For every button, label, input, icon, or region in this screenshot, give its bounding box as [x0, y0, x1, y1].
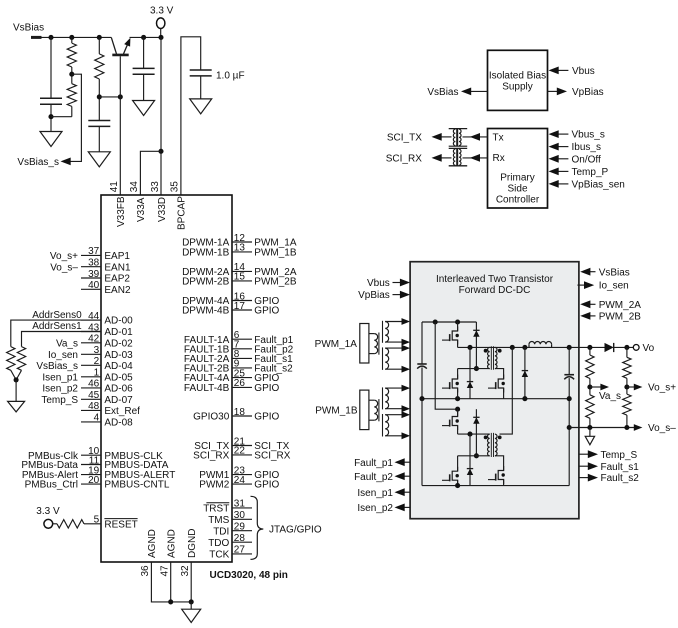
wire va_s arrow line: [590, 386, 601, 388]
T1 dot primary: [484, 349, 488, 353]
svg-text:GPIO: GPIO: [254, 383, 279, 394]
svg-text:AddrSens0: AddrSens0: [32, 310, 82, 321]
wire Q1 base to pin41: [119, 56, 121, 195]
node clamp1 foot: [474, 366, 479, 371]
wire input cap bottom: [421, 367, 423, 398]
node outgnd-a: [567, 396, 572, 401]
transformer T1 winding s: [495, 347, 497, 368]
svg-text:Vo_s–: Vo_s–: [648, 423, 676, 434]
svg-text:Isen_p1: Isen_p1: [42, 372, 78, 383]
transistor Q4 sync rect ph1: [498, 375, 503, 393]
power terminal 3.3V circle: [157, 18, 165, 29]
svg-text:Temp_S: Temp_S: [601, 450, 638, 461]
pin 7 stub: [232, 348, 252, 350]
resistor R9: [623, 357, 631, 378]
block Primary Side Controller: [488, 129, 548, 209]
ground below C1: [40, 132, 62, 147]
svg-text:30: 30: [234, 510, 246, 521]
secondary winding A PWM_1B: [385, 388, 388, 409]
node freewheel foot: [522, 396, 527, 401]
arrow VsBias dcdc: [580, 268, 590, 276]
primary core PWM_1A: [378, 333, 380, 355]
wire rail to R1: [71, 37, 73, 43]
node gnd2-a: [455, 483, 460, 488]
arrow Fault_s1 dcdc: [588, 462, 598, 470]
pin 39 stub: [81, 277, 101, 279]
wire r8 bottom: [589, 418, 591, 427]
svg-text:Io_sen: Io_sen: [48, 350, 78, 361]
transformer T3 winding b: [459, 129, 461, 145]
svg-text:Rx: Rx: [493, 153, 505, 164]
block Isolated Bias Supply: [488, 50, 548, 110]
svg-text:42: 42: [88, 334, 100, 345]
lead B1 PWM_1B: [385, 414, 401, 416]
svg-text:47: 47: [159, 565, 170, 577]
wire left column to ph2 gnd: [421, 399, 423, 486]
wire AddrSens0: [11, 320, 101, 347]
svg-text:1.0 µF: 1.0 µF: [216, 70, 245, 81]
transformer T4 bottom plate: [449, 165, 468, 167]
svg-text:20: 20: [88, 475, 100, 486]
ground digital: [182, 609, 201, 622]
wire diode to Vo: [614, 346, 634, 348]
arrow VpBias out: [557, 88, 567, 96]
wire to addr ground: [15, 380, 17, 402]
svg-text:AGND: AGND: [147, 529, 158, 558]
arrow Vbus in: [549, 67, 559, 75]
T2 dot secondary: [498, 436, 502, 440]
wire circle to R4: [53, 523, 57, 525]
lead A1 PWM_1A: [385, 321, 401, 323]
wire to ground: [190, 602, 192, 609]
wire VpBias out: [548, 90, 559, 92]
secondary winding B PWM_1A: [385, 348, 389, 369]
wire primary bottom ph2: [458, 455, 490, 457]
secondary core B PWM_1B: [382, 414, 384, 437]
lead A2 PWM_1B: [385, 408, 401, 410]
pin 27 stub: [232, 553, 252, 555]
svg-text:PWM2: PWM2: [199, 480, 229, 491]
node gnd-b: [455, 396, 460, 401]
capacitor C1: [40, 97, 62, 99]
capacitor C4 bypass: [190, 69, 212, 71]
lead B2 PWM_1B: [385, 435, 401, 437]
wire Isen_p2: [404, 506, 411, 508]
svg-text:GPIO30: GPIO30: [193, 412, 230, 423]
resistor R6: [17, 347, 25, 371]
arrow Vo_s+: [634, 384, 643, 391]
wire Vbus in: [558, 69, 569, 71]
wire R1 to R2: [71, 67, 73, 84]
svg-text:PWM_1B: PWM_1B: [254, 248, 297, 259]
inductor L1 output: [528, 344, 530, 347]
svg-text:Isolated Bias: Isolated Bias: [489, 70, 546, 81]
svg-text:AD-04: AD-04: [104, 361, 133, 372]
arrow Fault_p2: [395, 472, 405, 480]
wire input cap top: [421, 322, 423, 364]
svg-text:VpBias: VpBias: [572, 87, 604, 98]
svg-text:Fault_s2: Fault_s2: [601, 473, 640, 484]
svg-text:VpBias: VpBias: [358, 290, 390, 301]
pin 23 stub: [232, 474, 252, 476]
transformer T2 core: [490, 433, 492, 457]
arrow B1 PWM_1B: [402, 411, 411, 418]
transistor Q3 low-side ph1: [452, 375, 457, 393]
transformer T2 winding s: [495, 434, 497, 456]
arrow A1 PWM_1A: [402, 318, 411, 325]
wire AGND pin47 down: [170, 562, 172, 602]
transformer T3 top plate: [449, 128, 468, 130]
svg-text:TRST: TRST: [203, 504, 229, 515]
pin 10 stub: [81, 454, 101, 456]
svg-text:24: 24: [234, 475, 246, 486]
svg-text:Fault_p2: Fault_p2: [354, 472, 393, 483]
resistor R4: [57, 520, 84, 528]
svg-text:SCI_RX: SCI_RX: [193, 451, 229, 462]
power terminal 3.3V reset circle: [44, 519, 53, 528]
pin 16 stub: [232, 300, 252, 302]
wire output return: [569, 427, 634, 429]
svg-text:BPCAP: BPCAP: [177, 196, 188, 230]
wire primary bottom ph1: [458, 368, 490, 370]
svg-text:PWM_2B: PWM_2B: [254, 277, 297, 288]
node out-cap-top: [567, 345, 572, 350]
wire 3.3V to pin33: [160, 37, 162, 195]
T1 dot secondary: [498, 349, 502, 353]
svg-text:TDO: TDO: [208, 538, 229, 549]
wire phase2 feed: [435, 322, 457, 409]
node rail-j5: [158, 35, 163, 40]
svg-text:V33A: V33A: [136, 197, 147, 222]
gate transformer rect PWM_1A: [360, 324, 369, 364]
primary winding PWM_1A: [374, 334, 377, 354]
wire AGND pin36 down: [151, 562, 191, 602]
wire DGND pin32 down: [190, 562, 192, 602]
diode D6 output: [605, 343, 614, 352]
svg-text:TCK: TCK: [209, 550, 229, 561]
transistor Q1 collector: [111, 37, 116, 54]
diode D3 freewheel: [522, 371, 528, 377]
secondary core B PWM_1A: [382, 347, 384, 370]
tap upper PWM_1A: [369, 333, 374, 335]
pin 3 stub: [81, 353, 101, 355]
arrow Vo_s-: [634, 424, 643, 431]
wire r10 bottom: [626, 415, 628, 427]
wire sec bottom ph1: [495, 369, 504, 379]
secondary winding B PWM_1B: [385, 415, 389, 436]
svg-text:SCI_RX: SCI_RX: [386, 154, 422, 165]
svg-text:33: 33: [150, 181, 161, 193]
wire q5 source: [457, 426, 459, 435]
svg-text:2: 2: [94, 356, 100, 367]
wire Ibus_s in: [558, 146, 569, 148]
node R3-base junction: [97, 94, 102, 99]
lead B1 PWM_1A: [385, 347, 401, 349]
wire R2 bottom: [71, 106, 73, 116]
svg-text:VsBias_s: VsBias_s: [36, 361, 78, 372]
arrow Isen_p2: [395, 504, 405, 512]
svg-text:36: 36: [140, 565, 151, 577]
node va_s tap: [587, 384, 592, 389]
wire sec bottom ph2: [495, 456, 504, 471]
node clamp1 ph2 foot: [474, 453, 479, 458]
wire r7 top lead: [589, 347, 591, 355]
ground output: [585, 436, 594, 445]
node C1-R2 junction: [48, 114, 53, 119]
svg-text:Forward DC-DC: Forward DC-DC: [459, 285, 531, 296]
svg-text:PWM_2A: PWM_2A: [599, 300, 642, 311]
capacitor C6 output: [564, 374, 574, 376]
secondary core A PWM_1B: [382, 387, 384, 409]
svg-text:UCD3020, 48 pin: UCD3020, 48 pin: [210, 570, 288, 581]
svg-text:AD-00: AD-00: [104, 316, 133, 327]
diode D1 clamp: [473, 330, 479, 336]
transistor Q5 high-side ph2: [452, 412, 457, 430]
wire C3 to ground: [143, 74, 145, 100]
arrow Temp_S dcdc: [588, 450, 598, 458]
svg-text:PMBUS-CNTL: PMBUS-CNTL: [104, 480, 169, 491]
node sec-top-b: [522, 345, 527, 350]
wire base feedback: [99, 96, 120, 98]
wire VpBias_sen in: [558, 183, 569, 185]
pin 12 stub: [232, 241, 252, 243]
wire Temp_S dcdc: [579, 453, 589, 455]
primary core PWM_1B: [378, 399, 380, 421]
svg-text:34: 34: [129, 181, 140, 193]
transistor Q2 high-side ph1: [452, 327, 457, 345]
pin 31 stub: [232, 507, 252, 509]
pin 26 stub: [232, 386, 252, 388]
wire VpBias dcdc: [393, 294, 402, 296]
svg-text:VsBias: VsBias: [427, 87, 458, 98]
node DGND junction: [189, 599, 194, 604]
wire top bus: [422, 321, 476, 323]
wire Fault_s2 dcdc: [579, 477, 589, 479]
wire C3 branch: [143, 37, 145, 68]
svg-text:AD-01: AD-01: [104, 327, 133, 338]
brace JTAG: [251, 496, 264, 559]
svg-text:EAN1: EAN1: [104, 262, 131, 273]
node rail-j4: [141, 35, 146, 40]
svg-text:GPIO: GPIO: [254, 480, 279, 491]
arrow Fault_p1: [395, 458, 405, 466]
pin 25 stub: [232, 377, 252, 379]
wire R3 to C2: [98, 79, 100, 121]
gate transformer rect PWM_1B: [360, 390, 369, 430]
svg-text:18: 18: [234, 407, 246, 418]
wire rail to R3: [98, 37, 100, 54]
svg-text:48: 48: [88, 401, 100, 412]
wire q7 source: [503, 480, 505, 486]
arrow B1 PWM_1A: [402, 345, 411, 352]
arrow A1 PWM_1B: [402, 385, 411, 392]
svg-text:27: 27: [234, 545, 246, 556]
transformer T1 winding p: [488, 347, 490, 368]
arrow SCI_RX: [432, 154, 442, 162]
svg-text:37: 37: [88, 246, 100, 257]
node V33A junction: [158, 149, 163, 154]
arrow Ibus_s: [549, 143, 559, 151]
node AGND junction: [168, 599, 173, 604]
wire Fault_p1: [404, 461, 411, 463]
VsBias input stub: [31, 36, 42, 39]
wire out cap lower: [568, 378, 570, 486]
svg-text:Vo_s–: Vo_s–: [50, 262, 78, 273]
svg-text:Tx: Tx: [493, 133, 504, 144]
pin 22 stub: [232, 454, 252, 456]
arrow PWM_2A dcdc: [580, 300, 590, 308]
wire C1 to ground: [50, 104, 52, 131]
node ph2 feed: [455, 407, 460, 412]
svg-text:3.3 V: 3.3 V: [36, 506, 60, 517]
T2 dot primary: [484, 436, 488, 440]
node r7 top: [587, 345, 592, 350]
pin 4 stub: [81, 421, 101, 423]
pin 29 stub: [232, 530, 252, 532]
pin 8 stub: [232, 357, 252, 359]
resistor R1: [67, 43, 76, 67]
svg-text:VsBias: VsBias: [13, 23, 44, 34]
arrow VsBias_s: [61, 158, 71, 166]
svg-text:AD-08: AD-08: [104, 418, 133, 429]
overline TRST: [206, 502, 229, 504]
wire SCI_TX link: [441, 136, 452, 138]
pin 24 stub: [232, 483, 252, 485]
svg-text:Side: Side: [507, 183, 527, 194]
transformer T3 core bar: [456, 129, 458, 147]
wire pin35 BPCAP riser: [181, 37, 201, 195]
svg-text:Vo_s+: Vo_s+: [648, 383, 676, 394]
node vo-div: [624, 345, 629, 350]
wire r7 mid: [589, 379, 591, 395]
wire phase1 gnd bus: [422, 398, 569, 400]
svg-text:17: 17: [234, 301, 246, 312]
svg-text:31: 31: [234, 499, 246, 510]
wire Isen_p1: [404, 491, 411, 493]
node outgnd-b: [567, 425, 572, 430]
arrow VsBias out: [461, 88, 471, 96]
node pri-top-d: [467, 345, 472, 350]
secondary core A PWM_1A: [382, 321, 384, 343]
pin 40 stub: [81, 288, 101, 290]
transistor Q7 sync rect ph2: [498, 466, 503, 484]
arrow B2 PWM_1A: [402, 366, 411, 373]
svg-text:35: 35: [170, 181, 181, 193]
svg-text:AD-06: AD-06: [104, 384, 133, 395]
wire q6 source: [457, 480, 459, 485]
ground below C3: [133, 101, 155, 116]
svg-text:Va_s: Va_s: [599, 391, 621, 402]
pin 44 stub: [81, 319, 101, 321]
svg-text:V33D: V33D: [157, 197, 168, 222]
wire sec link ph2: [500, 347, 513, 434]
svg-text:VsBias_s: VsBias_s: [17, 157, 59, 168]
node ret-a: [587, 425, 592, 430]
wire PWM_2A dcdc: [589, 303, 595, 305]
terminal Vo circle: [633, 345, 639, 351]
secondary winding A PWM_1A: [385, 322, 388, 343]
ground below C4: [190, 99, 212, 114]
wire AddrSens1: [22, 332, 102, 347]
wire cap branch C1 down: [50, 37, 52, 98]
svg-text:26: 26: [234, 378, 246, 389]
wire q5 drain: [457, 409, 459, 416]
capacitor C5 input: [417, 363, 426, 365]
pin 1 stub: [81, 376, 101, 378]
arrow Io_sen dcdc: [584, 281, 594, 289]
svg-text:JTAG/GPIO: JTAG/GPIO: [269, 524, 322, 535]
svg-text:46: 46: [88, 379, 100, 390]
arrow PWM_2B dcdc: [580, 312, 590, 320]
pin 2 stub: [81, 364, 101, 366]
svg-text:DPWM-2B: DPWM-2B: [182, 277, 230, 288]
pin 42 stub: [81, 342, 101, 344]
svg-text:Ibus_s: Ibus_s: [572, 142, 601, 153]
capacitor C3: [133, 67, 155, 69]
wire q2 drain: [457, 369, 459, 379]
svg-text:32: 32: [180, 565, 191, 577]
pin 20 stub: [81, 483, 101, 485]
resistor R8: [586, 395, 594, 419]
wire clamp1 ph1: [475, 322, 477, 369]
wire R2 bottom to C1: [51, 116, 72, 118]
wire VsBias out: [470, 90, 488, 92]
arrow Rx: [470, 154, 480, 162]
svg-text:On/Off: On/Off: [572, 154, 601, 165]
svg-text:AD-05: AD-05: [104, 372, 133, 383]
pin 38 stub: [81, 266, 101, 268]
pin 43 stub: [81, 331, 101, 333]
pin 14 stub: [232, 270, 252, 272]
diode D4 clamp: [473, 417, 479, 423]
svg-text:GPIO: GPIO: [254, 412, 279, 423]
transformer core plates: [449, 145, 468, 147]
wire freewheel ph: [524, 347, 526, 398]
lead A2 PWM_1A: [385, 341, 401, 343]
arrow VpBias dcdc: [400, 291, 410, 299]
svg-text:3: 3: [94, 345, 100, 356]
wire q1 source: [457, 340, 459, 347]
svg-text:Isen_p2: Isen_p2: [42, 384, 78, 395]
svg-text:38: 38: [88, 258, 100, 269]
node bus-b: [455, 319, 460, 324]
pin 19 stub: [81, 474, 101, 476]
wire ret to ground: [589, 428, 591, 437]
svg-text:AD-03: AD-03: [104, 350, 133, 361]
svg-text:EAP2: EAP2: [104, 274, 130, 285]
tap lower PWM_1B: [369, 419, 374, 421]
node vo_s+ tap: [624, 384, 629, 389]
svg-text:PWM_1B: PWM_1B: [315, 405, 358, 416]
svg-text:TDI: TDI: [213, 526, 229, 537]
node gnd-a: [419, 396, 424, 401]
svg-text:Supply: Supply: [502, 81, 533, 92]
tap lower PWM_1A: [369, 353, 374, 355]
wire Io_sen dcdc: [577, 284, 585, 286]
svg-text:PWM_1A: PWM_1A: [315, 339, 358, 350]
svg-text:Vo_s+: Vo_s+: [50, 251, 78, 262]
node addr junction: [14, 377, 19, 382]
pin 21 stub: [232, 445, 252, 447]
resistor R3: [95, 54, 104, 79]
wire 3.3V circle stub: [160, 29, 162, 38]
svg-text:EAN2: EAN2: [104, 285, 131, 296]
arrow VpBias_sen: [549, 180, 559, 188]
svg-text:22: 22: [234, 446, 246, 457]
svg-text:Vbus_s: Vbus_s: [572, 130, 605, 141]
svg-text:V33FB: V33FB: [116, 196, 127, 227]
wire Vbus_s in: [558, 133, 569, 135]
